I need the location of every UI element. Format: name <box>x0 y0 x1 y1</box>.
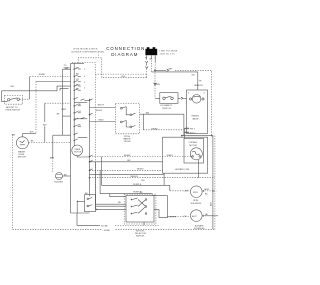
note line voltage <box>160 50 178 56</box>
timer bottom contact box <box>77 193 96 213</box>
svg-text:SWITCH: SWITCH <box>18 157 27 159</box>
node junction W <box>154 69 156 71</box>
svg-text:120V 60 CYC: 120V 60 CYC <box>160 54 176 56</box>
wire right side vertical dashed <box>211 136 215 230</box>
timer contacts top group <box>74 68 87 92</box>
svg-text:BLEACH DISPENSER ASM): BLEACH DISPENSER ASM) <box>72 50 104 53</box>
buzzer B1 <box>55 173 71 184</box>
svg-text:TM SW: TM SW <box>124 141 131 143</box>
svg-text:PURPLE: PURPLE <box>133 184 142 186</box>
power plug P1 <box>145 47 157 60</box>
wire plug right lead G <box>154 55 156 70</box>
svg-text:WH: WH <box>76 84 80 86</box>
svg-text:DIAGRAM: DIAGRAM <box>111 52 138 57</box>
svg-text:WH: WH <box>156 84 160 86</box>
title CONNECTION DIAGRAM <box>106 46 145 57</box>
wire W to right side <box>155 69 212 136</box>
wire BLK unbalance to water level <box>23 131 36 133</box>
agitate solenoid L2 <box>170 210 218 230</box>
svg-text:SWITCH: SWITCH <box>162 108 171 110</box>
svg-text:LID SAFETY: LID SAFETY <box>160 104 172 107</box>
svg-text:AGITATE (CW): AGITATE (CW) <box>175 168 189 171</box>
svg-text:RD: RD <box>118 202 121 204</box>
svg-text:ADJUST TO: ADJUST TO <box>6 106 18 109</box>
wire plug mid lead W <box>152 55 198 72</box>
wire W down to lid switch <box>154 70 161 98</box>
timer internal bus <box>73 63 75 145</box>
svg-text:BU/BN: BU/BN <box>124 155 131 157</box>
svg-text:BK/R: BK/R <box>204 189 209 191</box>
svg-text:R/BU: R/BU <box>99 120 104 122</box>
wire BK cord loop to timer (dashed, outside cabinet) <box>78 58 147 78</box>
timer contacts mid group <box>74 97 88 141</box>
wire selector ground stub <box>143 222 145 225</box>
note for models <box>72 49 104 54</box>
wire G down to valve (green ground) <box>192 72 204 90</box>
svg-text:WATER: WATER <box>18 150 26 153</box>
motor selector switch S5 <box>124 191 156 237</box>
wires entering timer from left <box>2 69 71 135</box>
svg-text:RD/BU: RD/BU <box>39 74 46 76</box>
svg-text:BRN: BRN <box>50 158 55 160</box>
timer contacts to temp switch wires <box>81 99 116 122</box>
svg-text:AGITATE: AGITATE <box>195 224 204 227</box>
svg-text:(FOR MODELS WITH: (FOR MODELS WITH <box>74 49 98 51</box>
svg-text:AGIT: AGIT <box>192 215 197 218</box>
svg-text:CW: CW <box>183 216 186 218</box>
svg-text:BLK: BLK <box>211 201 213 206</box>
wire BRN to buzzer <box>50 135 71 172</box>
wire plug left lead BK <box>145 55 148 77</box>
motor enclosure <box>163 137 208 173</box>
svg-text:VALVE: VALVE <box>192 117 199 120</box>
svg-text:BU/GY: BU/GY <box>96 110 103 112</box>
svg-text:RD/BU: RD/BU <box>137 169 144 171</box>
wire PU to spin solenoid <box>102 157 191 195</box>
cabinet outline dashed left <box>12 135 14 230</box>
wire selector to agitate solenoid <box>152 195 177 216</box>
svg-text:BK/BU: BK/BU <box>152 128 159 130</box>
svg-text:CONNECTION: CONNECTION <box>106 46 145 51</box>
wires timer bottom to selector <box>96 202 126 206</box>
svg-text:WH: WH <box>12 134 16 136</box>
svg-text:SOLENOID: SOLENOID <box>191 203 202 205</box>
svg-text:PPL 1: PPL 1 <box>190 128 196 130</box>
svg-text:MOTOR: MOTOR <box>189 145 197 147</box>
wire down left of selector <box>96 162 153 210</box>
svg-text:BUZZER: BUZZER <box>55 182 64 184</box>
water valve V1 <box>184 90 207 135</box>
svg-text:SOLENOID: SOLENOID <box>194 228 205 230</box>
unbalance switch S1 <box>2 77 30 112</box>
horizontal wires timer to right (mid) <box>90 154 215 182</box>
timer T1 box <box>71 63 90 213</box>
svg-text:MOTOR: MOTOR <box>74 152 82 154</box>
svg-text:BLK: BLK <box>30 131 35 133</box>
svg-text:PROB SWITCH: PROB SWITCH <box>6 109 21 111</box>
wire WH cord loop to timer (dashed inner) <box>72 62 146 205</box>
wire right side vertical solid <box>212 136 214 230</box>
svg-text:GRN/YEL: GRN/YEL <box>194 85 204 87</box>
timer right bus <box>89 99 93 197</box>
svg-text:GN: GN <box>192 75 196 77</box>
labels left of timer <box>62 68 69 111</box>
svg-text:WH/GN: WH/GN <box>131 176 139 178</box>
wire BN temp switch to valve <box>140 112 184 114</box>
svg-text:SWITCH: SWITCH <box>136 236 145 238</box>
svg-text:SPIN: SPIN <box>193 192 198 194</box>
wire BLK vertical mid-left <box>43 103 71 142</box>
vertical wire right of temp switch <box>183 114 185 135</box>
wire BK/BU dashed <box>143 114 184 130</box>
svg-text:BLK: BLK <box>43 125 48 127</box>
svg-text:GRND: GRND <box>104 230 111 232</box>
2 speed motor M2 <box>175 138 203 177</box>
label TO TIMER <box>63 65 70 70</box>
svg-text:BK/GY: BK/GY <box>98 104 105 106</box>
svg-text:BLK 2: BLK 2 <box>190 133 196 135</box>
spin solenoid L1 <box>184 186 216 205</box>
svg-text:WH: WH <box>169 69 173 71</box>
timer motor M1 <box>72 145 90 157</box>
svg-text:START: START <box>167 154 174 157</box>
svg-text:R-Y-BK: R-Y-BK <box>101 225 108 227</box>
wire RD Y BK bottom <box>77 213 160 232</box>
lid switch S4 <box>160 93 187 110</box>
svg-text:BLK: BLK <box>122 76 127 78</box>
cabinet outline dashed bottom <box>13 228 215 230</box>
svg-text:CW: CW <box>184 191 187 193</box>
svg-text:PURPLE: PURPLE <box>133 191 142 193</box>
svg-text:LINE VOLTAGE: LINE VOLTAGE <box>160 50 178 53</box>
water level switch S2 <box>12 133 71 158</box>
svg-text:WH: WH <box>10 86 14 88</box>
svg-text:MIXING: MIXING <box>192 116 200 118</box>
wire motor feed <box>181 128 213 138</box>
water temp switch S3 <box>115 103 139 142</box>
wire BK stub <box>57 113 71 116</box>
